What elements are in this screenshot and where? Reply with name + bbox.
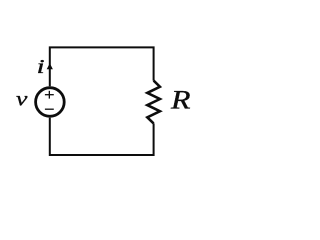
svg-text:v: v [16, 87, 28, 111]
svg-text:R: R [170, 86, 191, 115]
svg-text:i: i [37, 57, 45, 78]
